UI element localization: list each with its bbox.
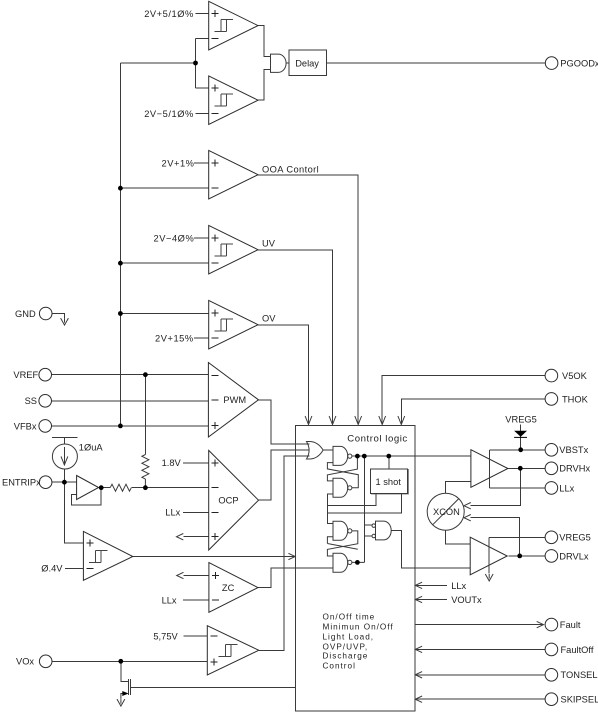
svg-text:Minimun On/Off: Minimun On/Off xyxy=(323,622,394,631)
svg-text:VREG5: VREG5 xyxy=(559,533,591,543)
svg-text:V5OK: V5OK xyxy=(562,371,588,381)
svg-text:ZC: ZC xyxy=(222,583,235,593)
svg-text:XCON: XCON xyxy=(433,507,460,517)
svg-text:SKIPSEL: SKIPSEL xyxy=(561,695,598,705)
svg-text:UV: UV xyxy=(262,238,276,248)
svg-text:OVP/UVP,: OVP/UVP, xyxy=(323,642,369,651)
svg-text:PWM: PWM xyxy=(223,395,246,405)
svg-text:LLx: LLx xyxy=(165,508,180,518)
svg-text:OV: OV xyxy=(262,313,276,323)
svg-text:1 shot: 1 shot xyxy=(376,477,402,487)
svg-text:TONSEL: TONSEL xyxy=(561,670,598,680)
svg-text:2V−4Ø%: 2V−4Ø% xyxy=(154,234,195,244)
svg-text:VBSTx: VBSTx xyxy=(559,445,588,455)
svg-text:Control logic: Control logic xyxy=(347,434,407,445)
svg-text:ENTRIPx: ENTRIPx xyxy=(2,478,41,488)
svg-text:PGOODx: PGOODx xyxy=(560,59,598,69)
svg-text:LLx: LLx xyxy=(451,581,466,591)
svg-text:LLx: LLx xyxy=(162,596,177,606)
svg-text:Discharge: Discharge xyxy=(323,652,369,661)
svg-text:2V+1%: 2V+1% xyxy=(162,159,195,169)
svg-text:SS: SS xyxy=(25,396,37,406)
svg-text:OCP: OCP xyxy=(218,496,238,506)
svg-text:VFBx: VFBx xyxy=(14,421,37,431)
svg-text:Delay: Delay xyxy=(295,58,319,68)
svg-text:VOx: VOx xyxy=(16,657,34,667)
svg-text:Light Load,: Light Load, xyxy=(323,633,375,642)
svg-text:DRVHx: DRVHx xyxy=(559,464,590,474)
svg-text:5,75V: 5,75V xyxy=(153,631,178,641)
svg-text:2V+15%: 2V+15% xyxy=(155,334,194,344)
svg-text:Ø.4V: Ø.4V xyxy=(41,564,63,574)
svg-text:2V−5/1Ø%: 2V−5/1Ø% xyxy=(144,109,194,119)
svg-text:2V+5/1Ø%: 2V+5/1Ø% xyxy=(144,9,194,19)
svg-text:THOK: THOK xyxy=(562,394,589,404)
svg-text:VREG5: VREG5 xyxy=(505,414,537,424)
svg-text:VOUTx: VOUTx xyxy=(451,595,482,605)
svg-text:1.8V: 1.8V xyxy=(162,458,182,468)
svg-text:1ØuA: 1ØuA xyxy=(79,442,104,452)
svg-text:OOA Contorl: OOA Contorl xyxy=(262,164,319,174)
svg-text:On/Off time: On/Off time xyxy=(323,612,376,621)
svg-text:FaultOff: FaultOff xyxy=(561,645,594,655)
svg-text:Fault: Fault xyxy=(560,620,581,630)
svg-text:LLx: LLx xyxy=(559,483,574,493)
svg-text:GND: GND xyxy=(15,309,36,319)
svg-text:VREF: VREF xyxy=(13,370,38,380)
svg-text:Control: Control xyxy=(323,661,356,670)
svg-text:DRVLx: DRVLx xyxy=(559,551,589,561)
